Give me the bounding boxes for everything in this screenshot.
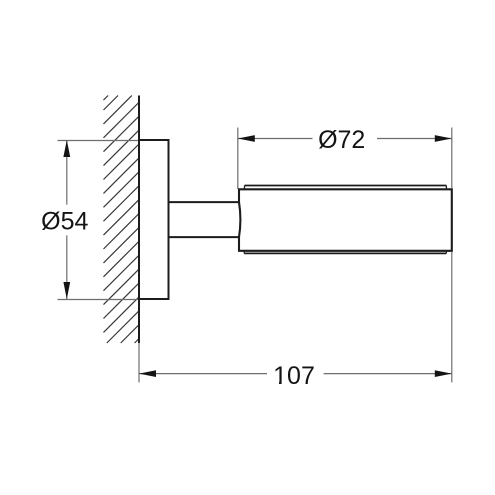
arrow dim54 up (63, 140, 70, 157)
wall hatching (104, 96, 140, 344)
wall surface line (138, 96, 140, 344)
arrow dim72 right (435, 135, 452, 142)
arrow dim72 left (238, 135, 255, 142)
holder rim top (245, 186, 447, 190)
extension line dim54 bottom (58, 299, 140, 301)
extension line dim107 right lower (451, 252, 453, 382)
svg-text:Ø72: Ø72 (318, 126, 365, 154)
svg-text:Ø54: Ø54 (41, 208, 88, 236)
holder rim bottom (244, 251, 446, 254)
extension line dim107 left lower (138, 343, 140, 382)
extension line dim54 top (58, 140, 140, 142)
holder cylinder body (239, 189, 452, 251)
arrow dim107 left (139, 370, 156, 377)
extension line dim72 left (237, 128, 239, 190)
stem top line (169, 201, 241, 203)
arrow dim107 right (435, 370, 452, 377)
arrow dim54 down (63, 282, 70, 299)
dimension line dim72 (238, 138, 452, 140)
dimension line dim54 (66, 140, 68, 299)
wall plate (139, 140, 169, 299)
dimension line dim107 (139, 373, 452, 375)
svg-text:107: 107 (273, 362, 315, 390)
stem bottom line (169, 236, 241, 238)
extension line dim72 right (451, 128, 453, 189)
